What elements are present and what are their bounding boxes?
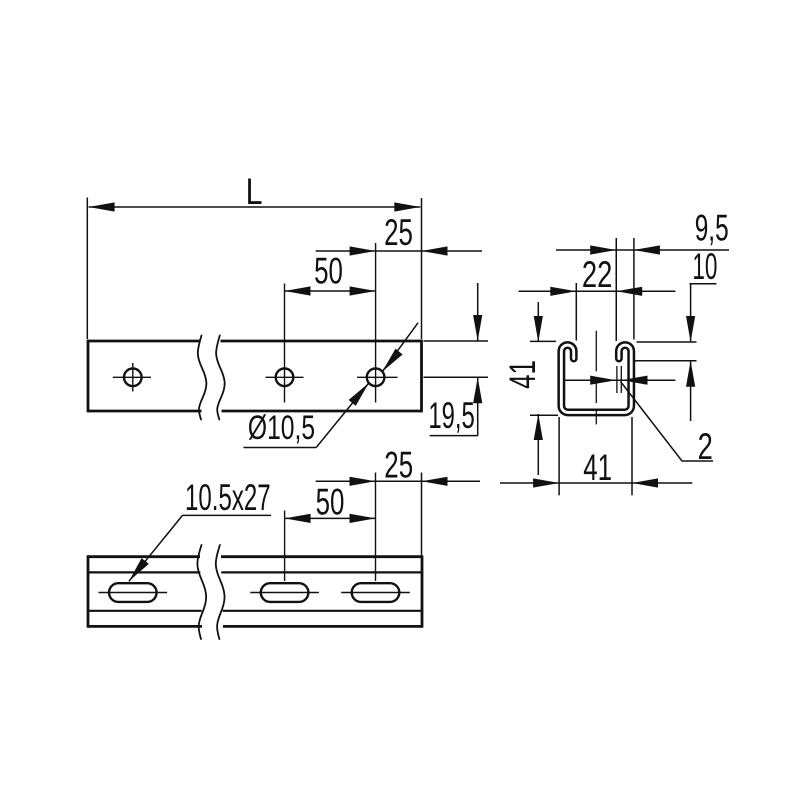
view1 hole 1 (round hole) bbox=[124, 369, 142, 387]
dimension line 41 vertical lower tail bbox=[537, 414, 539, 475]
extension line at hole center height (19,5) bbox=[424, 376, 489, 378]
label shelf for 19,5 bbox=[430, 435, 478, 437]
view3 bottom outer edge (left segment) bbox=[88, 625, 202, 628]
leader line to hole 3 (lower segment) bbox=[316, 383, 369, 448]
extension line at channel top (41 vertical) bbox=[530, 340, 556, 342]
svg-text:10.5x27: 10.5x27 bbox=[185, 477, 271, 519]
svg-text:10: 10 bbox=[692, 246, 717, 287]
extension line at hole 2 center bbox=[284, 284, 286, 403]
view1 bar left end edge bbox=[87, 340, 90, 413]
view3 bottom inner edge (left segment) bbox=[88, 610, 202, 612]
extension line at lip bottom (10) bbox=[633, 360, 697, 362]
slot 3 centerline bbox=[341, 592, 410, 594]
extension line at slot 3 center bbox=[375, 473, 377, 582]
dimension line 19,5 upper tail bbox=[477, 283, 479, 341]
view3 slot 3 (10.5x27 obround) bbox=[352, 583, 400, 602]
dimension line 50 (view1) bbox=[285, 290, 376, 292]
extension line right (bar end) for L and 25 bbox=[421, 198, 423, 339]
extension line at outer wall (9,5) bbox=[633, 238, 635, 340]
dimension line 10 lower tail bbox=[690, 361, 692, 421]
leader line through hole 3 (upper segment) bbox=[382, 323, 418, 372]
view1 break line (right squiggle) bbox=[216, 336, 225, 420]
dimension line 10 upper tail bbox=[690, 284, 692, 342]
label shelf for diameter 10,5 bbox=[243, 447, 316, 449]
extension line lip inner surface (2) bbox=[620, 366, 622, 393]
view3 top inner edge (left segment) bbox=[88, 571, 200, 573]
dimension line 19,5 lower tail bbox=[477, 377, 479, 436]
extension line at left wall (41 bottom) bbox=[558, 417, 560, 495]
svg-text:2: 2 bbox=[698, 426, 713, 467]
hole 1 vertical centerline bbox=[132, 363, 134, 392]
svg-text:50: 50 bbox=[314, 250, 343, 292]
view3 top outer edge (right segment) bbox=[221, 555, 422, 558]
extension line lip outer surface (2) bbox=[616, 366, 618, 393]
view3 slot 2 (10.5x27 obround) bbox=[261, 583, 309, 602]
extension line at channel top (10) bbox=[637, 341, 697, 343]
dimension line 41 bottom bbox=[500, 482, 692, 484]
svg-text:19,5: 19,5 bbox=[428, 395, 474, 437]
dimension line 9,5 bbox=[556, 249, 729, 251]
view3 bottom outer edge (right segment) bbox=[223, 625, 422, 628]
view3 right end edge bbox=[421, 555, 424, 628]
svg-text:Ø10,5: Ø10,5 bbox=[248, 409, 315, 447]
dimension line 25 (view3) bbox=[316, 480, 480, 482]
svg-text:L: L bbox=[246, 171, 263, 213]
dimension line L bbox=[89, 206, 421, 208]
extension line at hole 3 center (serves 25 and 50 dims) bbox=[375, 243, 377, 403]
view3 top outer edge (left segment) bbox=[88, 555, 200, 558]
extension line at slot 2 center bbox=[284, 511, 286, 582]
section vertical centerline (middle segment) bbox=[595, 382, 597, 403]
svg-text:25: 25 bbox=[384, 211, 413, 253]
dimension line 41 vertical upper tail bbox=[537, 302, 539, 342]
section vertical centerline (upper segment) bbox=[595, 331, 597, 372]
dimension line 22 bbox=[519, 290, 676, 292]
slot 1 centerline bbox=[99, 592, 168, 594]
leader line to label 2 bbox=[621, 382, 714, 462]
svg-text:41: 41 bbox=[583, 446, 612, 488]
extension line at right wall (41 bottom) bbox=[631, 417, 633, 495]
svg-text:50: 50 bbox=[316, 481, 345, 523]
extension line at left slot edge (22) bbox=[575, 283, 577, 341]
dimension line 50 (view3) bbox=[285, 517, 376, 519]
channel cross-section profile (sheet, outer contour) bbox=[561, 345, 631, 412]
extension line at slot edge (9,5 / 22) bbox=[615, 238, 617, 341]
view3 break line (left squiggle) bbox=[197, 545, 206, 639]
extension line at bar end (25 view3) bbox=[421, 473, 423, 556]
hole 2 horizontal centerline bbox=[266, 376, 304, 378]
view3 bottom inner edge (right segment) bbox=[223, 610, 422, 612]
dimension line 2 (thickness) bbox=[564, 379, 675, 381]
view1 hole 3 (round hole) bbox=[367, 369, 385, 387]
svg-text:22: 22 bbox=[582, 254, 612, 295]
view1 bar right end edge bbox=[420, 340, 423, 413]
view1 bar top edge (right segment) bbox=[221, 340, 422, 343]
view3 top inner edge (right segment) bbox=[221, 571, 422, 573]
label shelf for 10.5x27 bbox=[183, 514, 272, 516]
view3 slot 1 (10.5x27 obround) bbox=[109, 583, 157, 602]
hole 3 horizontal centerline bbox=[357, 376, 398, 378]
extension line at bar top edge (19,5) bbox=[424, 340, 489, 342]
svg-text:25: 25 bbox=[384, 444, 413, 486]
label shelf under 10 bbox=[690, 283, 717, 285]
view3 left end edge bbox=[87, 555, 90, 628]
section vertical centerline (lower segment) bbox=[595, 409, 597, 424]
slot 2 centerline bbox=[250, 592, 319, 594]
channel cross-section profile (sheet interior) bbox=[561, 345, 631, 412]
dimension line 25 (view1) bbox=[316, 250, 482, 252]
view3 break line (right squiggle) bbox=[216, 545, 225, 639]
view1 break line (left squiggle) bbox=[198, 336, 207, 420]
extension line at channel bottom (41 vertical) bbox=[530, 414, 558, 416]
hole 1 horizontal centerline bbox=[113, 376, 151, 378]
extension line left for dimension L bbox=[86, 198, 88, 340]
svg-text:9,5: 9,5 bbox=[695, 207, 729, 248]
leader line to slot 1 bbox=[129, 515, 183, 581]
view1 bar top edge (left segment) bbox=[88, 340, 200, 343]
view1 bar bottom edge (left segment) bbox=[88, 410, 202, 413]
view1 hole 2 (round hole) bbox=[276, 369, 294, 387]
svg-text:41: 41 bbox=[501, 360, 543, 389]
view1 bar bottom edge (right segment) bbox=[222, 410, 422, 413]
